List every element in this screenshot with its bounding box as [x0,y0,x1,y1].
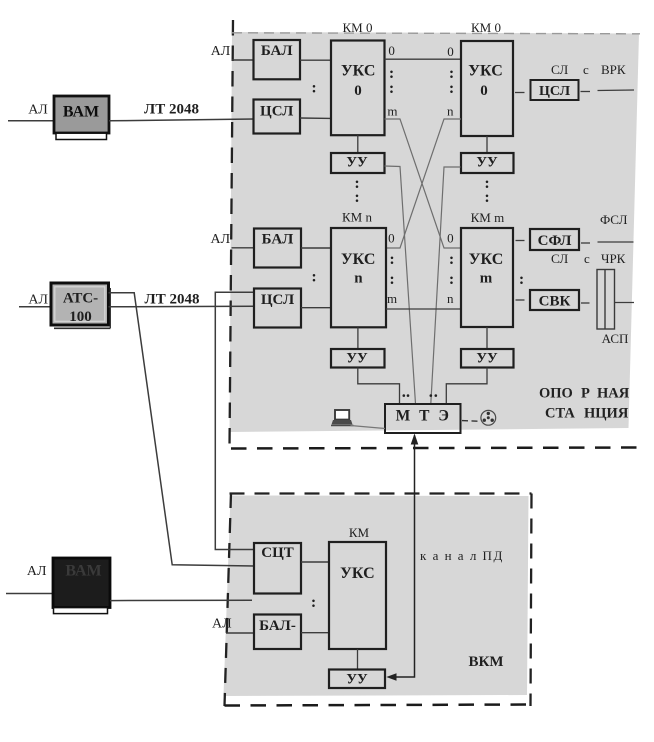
svg-text:СФЛ: СФЛ [538,233,572,249]
svg-text::: : [311,269,316,286]
svg-text:n: n [447,291,454,306]
svg-text:ФСЛ: ФСЛ [600,212,628,227]
switch UKS (VKM) [329,542,386,649]
wire ASP out [615,302,635,304]
wire AL stub to BAL2 [232,247,255,249]
wire BAL1 to UKS0-left [300,59,331,61]
svg-text:m: m [387,291,397,306]
svg-text:АЛ: АЛ [28,292,48,307]
terminal VAM (top) body [54,96,109,133]
svg-text:КМ 0: КМ 0 [343,20,373,35]
svg-text:КМ m: КМ m [471,210,505,225]
VKM region gray fill [224,496,529,697]
arrowhead up into MTE [411,434,419,445]
svg-text:100: 100 [69,309,92,325]
terminal ATS-100 shadow bottom [54,327,111,329]
wire UKS-VKM to UU3 [357,649,359,670]
svg-text:КМ n: КМ n [342,210,372,225]
control unit UU1 left [331,153,385,173]
wire TSSL2 upper input down to SCT [215,292,254,549]
wire link UKS0-left 0 to UKS0-right 0 [385,58,462,60]
svg-text::: : [389,80,394,97]
wire dash SFL out [581,242,590,244]
terminal ATS-100 inner highlight [55,287,105,322]
dots pair right of MTE top [430,394,433,397]
svg-text:КМ: КМ [349,525,370,540]
svg-text:0: 0 [388,43,395,58]
svg-text:УКС: УКС [468,63,503,80]
ASP multiplex bars [597,270,615,330]
svg-text::: : [449,80,454,97]
switch UKS 0 right [461,41,513,136]
svg-text:0: 0 [388,231,395,246]
svg-text:БАЛ: БАЛ [261,43,293,59]
svg-text:ЦСЛ: ЦСЛ [261,292,294,308]
svg-text:УКС: УКС [341,63,376,80]
svg-text::: : [449,271,454,288]
block TSSL1 [254,100,301,134]
fan icon [481,410,496,425]
svg-text:СЦТ: СЦТ [261,545,294,561]
svg-text:ВАМ: ВАМ [65,563,101,580]
svg-text:0: 0 [447,231,454,246]
svg-text:УКС: УКС [340,565,375,582]
terminal ATS-100 shadow right [109,288,111,328]
dots pair left of MTE top [403,394,406,397]
arrow line MTE to UU3 [390,436,415,678]
wire UKSm to UU2-right [486,327,488,349]
svg-text:М Т Э: М Т Э [396,408,452,425]
svg-text:КМ 0: КМ 0 [471,20,501,35]
svg-text:БАЛ: БАЛ [262,232,294,248]
svg-text:0: 0 [447,44,454,59]
wire dash MTE to fan [462,420,478,423]
wire cross UKS0-left m to UKSm 0 [385,119,462,248]
svg-text:m: m [387,103,397,118]
svg-text::: : [311,594,316,611]
block TSSL2 [254,289,301,328]
block BAL1 [254,40,301,79]
wire AL to VAM (top) [8,120,54,122]
svg-text:УКС: УКС [469,251,504,268]
VKM dashed border right [531,494,532,707]
opornaya station dashed border bottom [231,448,638,449]
wire BAL2 to UKSn [301,247,331,249]
arrowhead left into UU3 [386,673,396,681]
wire UKS0-right to UU1-right [486,136,488,153]
svg-text:АЛ: АЛ [212,616,232,631]
svg-text::: : [519,271,524,288]
VKM dashed border top [230,492,532,494]
svg-text:к а н а л ПД: к а н а л ПД [420,548,504,563]
control unit UU2 left [331,349,385,368]
control unit UU3 [329,670,385,689]
terminal VAM (bottom) pedestal [54,608,108,614]
wire cross UKS0-right n to UKSn 0 [386,119,461,248]
wire UKS0-left to UU1-left [357,135,359,153]
svg-text:УУ: УУ [476,154,498,170]
svg-text:ВКМ: ВКМ [468,654,503,670]
switch UKS 0 left [331,41,385,136]
svg-text::: : [311,80,316,97]
wire from VAM (bottom) toward SCT [110,599,252,601]
wire UKSn to UU2-left [357,327,359,349]
laptop icon base [332,420,353,425]
svg-text:УУ: УУ [346,154,368,170]
opornaya station region gray fill [230,32,640,432]
svg-text:ВАМ: ВАМ [63,104,99,121]
svg-text:АСП: АСП [602,331,629,346]
control unit UU1 right [461,153,514,173]
block BAL2 [254,229,301,268]
wire link UKSn m to UKSm n [386,308,461,310]
wire UU1-right to MTE (long slant) [431,167,461,404]
svg-text:УКС: УКС [341,251,376,268]
trunk block SFL [530,229,579,250]
wire dash TSSL-right out [581,91,591,93]
svg-text:АЛ: АЛ [211,44,231,59]
opornaya station dashed border top (faint) [232,33,640,34]
terminal VAM (top) pedestal [56,133,107,139]
svg-text:АЛ: АЛ [27,564,47,579]
block BAL- [254,615,301,650]
svg-text:n: n [354,271,363,287]
wire dash SVK to ASP [581,302,590,304]
svg-text:АЛ: АЛ [210,232,230,247]
wire FSL line [598,241,634,243]
svg-text:УУ: УУ [476,351,498,367]
VKM dashed border bottom [225,705,532,706]
svg-text:СВК: СВК [539,294,571,310]
svg-text:0: 0 [354,83,362,99]
svg-text::: : [449,251,454,268]
svg-text:ЛТ 2048: ЛТ 2048 [144,102,199,118]
switch UKS m [461,228,513,327]
wire dash UKSm to SVK [516,299,525,301]
terminal ATS-100 body [51,283,109,325]
svg-text::: : [354,189,359,206]
svg-text::: : [389,251,394,268]
svg-text:АТС-: АТС- [63,291,98,307]
svg-text:СЛсЧРК: СЛсЧРК [551,251,626,266]
terminal VAM (bottom) body [53,558,110,608]
wire BAL- to UKS-VKM [301,632,329,634]
wire SL s VRK line [598,89,635,92]
svg-text::: : [389,271,394,288]
svg-text:СТАНЦИЯ: СТАНЦИЯ [545,406,629,422]
opornaya station dashed border left [230,20,234,448]
wire dash UKSm to SFL [516,240,525,242]
wire LT 2048 from ATS-100 to TSSL2 [109,305,255,308]
ASP middle bar [604,270,606,330]
trunk block TSSL right [531,80,579,100]
wire LT 2048 from VAM to TSSL1 [109,119,254,121]
svg-text:УУ: УУ [346,351,368,367]
wire ATS-100 upper output bend to SCT [109,293,255,566]
svg-text:СЛсВРК: СЛсВРК [551,62,626,77]
svg-text:ОПОРНАЯ: ОПОРНАЯ [539,386,630,402]
block SCT [254,543,301,594]
VKM dashed border left [225,493,232,706]
wire AL stub to BAL1 [232,59,255,61]
trunk block SVK [530,290,579,310]
svg-text:0: 0 [480,83,488,99]
svg-text:ЦСЛ: ЦСЛ [260,103,293,119]
wire AL stub to BAL- [226,632,254,634]
svg-text:УУ: УУ [346,671,368,687]
svg-text:ЦСЛ: ЦСЛ [539,84,571,99]
wire SCT to UKS-VKM [301,561,329,563]
switch UKS n [331,228,386,327]
svg-text:ЛТ 2048: ЛТ 2048 [145,291,200,307]
wire dash UKS0-right to TSSL-right [515,92,525,94]
svg-text:m: m [480,271,493,287]
wire AL to VAM (bottom) [6,593,53,595]
svg-text:БАЛ-: БАЛ- [259,618,296,634]
wire laptop to MTE [351,426,386,429]
laptop icon screen [335,410,349,420]
svg-text:АЛ: АЛ [28,103,48,118]
wire TSSL1 to UKS0-left [300,117,331,119]
svg-text::: : [484,189,489,206]
wire AL to ATS-100 [19,306,51,308]
wire TSSL2 to UKSn [301,307,331,309]
svg-text:n: n [447,103,454,118]
wire UU2-right to MTE [446,368,487,405]
maintenance terminal MTE [385,404,461,433]
wire UU2-left to MTE [358,368,400,405]
wire UU1-left to MTE (long slant) [385,166,416,404]
control unit UU2 right [461,349,514,368]
